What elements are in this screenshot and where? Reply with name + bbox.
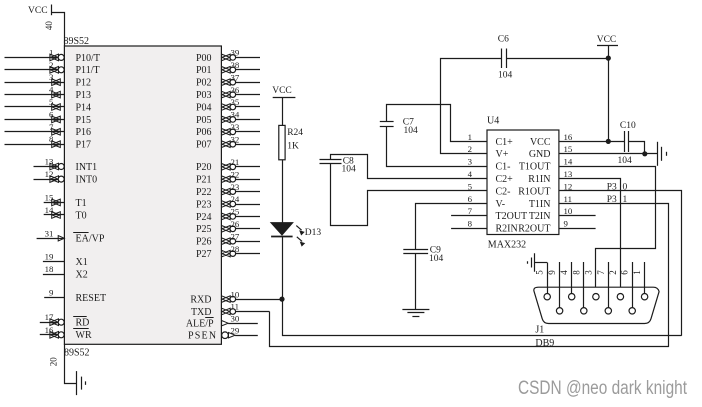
svg-text:P14: P14 [76, 102, 92, 113]
svg-text:INT0: INT0 [76, 175, 98, 186]
89S52 pin 21 (P20) wire, marker, number, label [196, 157, 260, 173]
wire TXD down and right along bottom (net P3.1) [270, 312, 669, 347]
svg-text:7: 7 [596, 270, 606, 275]
svg-text:38: 38 [231, 60, 240, 70]
svg-text:1: 1 [632, 270, 642, 275]
svg-text:P21: P21 [196, 175, 212, 186]
MAX232 pin 8 (R2IN) number + label [468, 219, 518, 235]
svg-text:6: 6 [620, 270, 630, 275]
wire MAX232 pin11 T1IN (net P3.1) to right-edge drop [559, 204, 669, 347]
wire R24 to LED D13 anode [282, 160, 284, 223]
svg-text:P03: P03 [196, 90, 212, 101]
89S52 pin 37 (P02) wire, marker, number, label [196, 72, 260, 88]
MAX232 pin 14 (T1OUT) number + label [519, 157, 573, 173]
svg-text:1: 1 [623, 195, 628, 205]
junction node VCC rail / pin16 wire [606, 139, 611, 144]
svg-text:6: 6 [468, 194, 473, 204]
svg-text:P11/T: P11/T [76, 65, 100, 76]
svg-text:18: 18 [45, 264, 54, 274]
capacitor C8 104 [320, 157, 357, 175]
svg-text:X1: X1 [76, 257, 88, 268]
svg-text:32: 32 [231, 134, 240, 144]
svg-text:P23: P23 [196, 199, 212, 210]
89S52 pin 20 wire to ground [65, 344, 77, 383]
svg-text:13: 13 [45, 157, 54, 167]
svg-text:P22: P22 [196, 187, 212, 198]
DB9 pin 5 hole + stub + number [535, 263, 551, 300]
svg-text:8: 8 [49, 134, 54, 144]
svg-text:89S52: 89S52 [64, 36, 90, 47]
capacitor C9 104 [403, 245, 443, 264]
svg-text:VCC: VCC [28, 6, 48, 16]
svg-text:C2-: C2- [496, 186, 511, 197]
svg-text:89S52: 89S52 [64, 348, 90, 359]
svg-text:4: 4 [559, 270, 569, 275]
net label P3.1 [607, 195, 628, 205]
MAX232 pin 5 (C2-) number + label [468, 181, 511, 197]
wire C6 to VCC rail [506, 58, 608, 60]
DB9 pin 7 hole + stub + number [596, 262, 612, 314]
svg-text:8: 8 [468, 219, 473, 229]
svg-text:27: 27 [231, 231, 240, 241]
DB9 pin 8 hole + stub + number [571, 262, 587, 314]
svg-text:T1OUT: T1OUT [519, 162, 551, 173]
svg-text:P15: P15 [76, 115, 92, 126]
svg-text:11: 11 [564, 194, 572, 204]
89S52 pin 23 (P22) wire, marker, number, label [196, 182, 260, 198]
svg-text:P27: P27 [196, 249, 212, 260]
MAX232 pin9 wire stub [559, 228, 596, 230]
svg-text:PSEN: PSEN [188, 331, 217, 342]
connector J1 DB9 body [534, 287, 659, 349]
89S52 pin 16 (WR) wire, marker, number, label [40, 325, 92, 341]
ground symbol below 89S52 (rotated right) [77, 371, 86, 395]
89S52 pin 26 (P25) wire, marker, number, label [196, 219, 260, 235]
89S52 pin 28 (P27) wire, marker, number, label [196, 244, 260, 260]
svg-text:RXD: RXD [190, 295, 211, 306]
svg-text:104: 104 [404, 126, 419, 136]
MAX232 pin 9 (R2OUT) number + label [518, 219, 568, 235]
svg-text:9: 9 [49, 288, 54, 298]
svg-text:26: 26 [231, 219, 240, 229]
svg-text:P25: P25 [196, 224, 212, 235]
svg-text:EA/VP: EA/VP [76, 234, 105, 245]
svg-text:C6: C6 [498, 35, 509, 45]
89S52 pin 15 (T1) wire, marker, number, label [44, 192, 87, 208]
svg-text:13: 13 [564, 169, 573, 179]
svg-text:P20: P20 [196, 162, 212, 173]
svg-text:19: 19 [45, 252, 54, 262]
svg-text:R1OUT: R1OUT [518, 186, 550, 197]
wire MAX232 pin15 GND row [559, 153, 657, 155]
capacitor C10 104 [618, 121, 636, 166]
svg-text:9: 9 [547, 270, 557, 275]
svg-text:4: 4 [468, 169, 473, 179]
MAX232 pin 12 (R1OUT) number + label [518, 181, 572, 197]
svg-text:U4: U4 [487, 116, 499, 127]
svg-text:P04: P04 [196, 102, 212, 113]
svg-text:ALE/P: ALE/P [186, 319, 214, 330]
89S52 pin 35 (P04) wire, marker, number, label [196, 97, 260, 113]
DB9 pin 2 hole + stub + number [608, 270, 624, 300]
svg-text:17: 17 [45, 312, 54, 322]
MAX232 pin 16 (VCC) number + label [530, 132, 573, 148]
VCC power symbol above R24 [272, 86, 295, 98]
wire C10 right lead down to GND row [628, 142, 644, 154]
89S52 pin 6 (P15) wire, marker, number, label [5, 109, 92, 125]
svg-text:R1IN: R1IN [528, 174, 550, 185]
svg-text:J1: J1 [535, 325, 544, 336]
89S52 pin 14 (T0) wire, marker, number, label [44, 205, 87, 221]
MAX232 pin 15 (GND) number + label [529, 144, 573, 160]
svg-text:36: 36 [231, 85, 240, 95]
ground symbol below C9 [402, 310, 429, 317]
svg-text:T1: T1 [76, 198, 87, 209]
svg-text:R2OUT: R2OUT [518, 224, 550, 235]
junction node RXD / LED / serial line [279, 297, 284, 302]
89S52 pin 25 (P24) wire, marker, number, label [196, 207, 260, 223]
wire junction down and right along bottom (net P3.0) [283, 299, 682, 335]
wire VCC to R24 [282, 98, 284, 126]
LED D13 [271, 223, 321, 246]
svg-text:T2OUT: T2OUT [496, 211, 528, 222]
wire C7 bottom to MAX232 pin3 C1- [387, 127, 488, 167]
svg-text:TXD: TXD [191, 307, 212, 318]
svg-text:X2: X2 [76, 270, 88, 281]
89S52 pin 19 (X1) wire, marker, number, label [43, 252, 88, 268]
svg-text:35: 35 [231, 97, 240, 107]
89S52 pin 30 (ALE/P) wire, marker, number, label [186, 313, 258, 329]
svg-text:23: 23 [231, 182, 240, 192]
svg-text:P06: P06 [196, 127, 212, 138]
svg-text:15: 15 [45, 192, 54, 202]
svg-text:P17: P17 [76, 140, 92, 151]
VCC power symbol (right, bar style) [597, 35, 618, 46]
wire C9 to ground [415, 253, 417, 309]
89S52 pin 38 (P01) wire, marker, number, label [196, 60, 260, 76]
wire VCC rail down to MAX232 pin16 [608, 46, 610, 142]
svg-text:T1IN: T1IN [529, 199, 551, 210]
svg-text:1: 1 [468, 132, 472, 142]
svg-text:RESET: RESET [76, 293, 107, 304]
svg-text:P3: P3 [607, 182, 617, 192]
svg-text:VCC: VCC [530, 137, 551, 148]
svg-text:3: 3 [468, 157, 473, 167]
svg-text:P01: P01 [196, 65, 212, 76]
MAX232 pin 1 (C1+) number + label [468, 132, 514, 148]
svg-text:R2IN: R2IN [496, 224, 518, 235]
svg-text:P24: P24 [196, 212, 212, 223]
svg-text:GND: GND [529, 149, 551, 160]
svg-text:15: 15 [564, 144, 573, 154]
svg-text:104: 104 [342, 165, 357, 175]
svg-text:28: 28 [231, 244, 240, 254]
svg-text:7: 7 [468, 206, 473, 216]
89S52 pin 5 (P14) wire, marker, number, label [5, 97, 92, 113]
MAX232 pin 13 (R1IN) number + label [528, 169, 573, 185]
svg-text:24: 24 [231, 194, 240, 204]
wire DB9 pin5 to ground lead [535, 262, 547, 264]
svg-text:21: 21 [231, 157, 240, 167]
MAX232 pin 4 (C2+) number + label [468, 169, 514, 185]
svg-text:39: 39 [231, 48, 240, 58]
svg-text:5: 5 [535, 270, 545, 275]
89S52 pin 1 (P10/T) wire, marker, number, label [5, 47, 100, 63]
svg-text:R24: R24 [287, 128, 303, 138]
svg-text:0: 0 [623, 182, 628, 192]
89S52 pin 27 (P26) wire, marker, number, label [196, 231, 260, 247]
svg-text:P00: P00 [196, 53, 212, 64]
89S52 pin 18 (X2) wire, marker, number, label [43, 264, 88, 280]
svg-text:104: 104 [618, 156, 633, 166]
capacitor C7 104 [380, 118, 418, 137]
IC U? 89S52 microcontroller body [64, 36, 222, 359]
VCC power symbol (top-left, bar style) [28, 5, 52, 16]
svg-text:C10: C10 [620, 121, 636, 131]
MAX232 pin 6 (V-) number + label [468, 194, 506, 210]
89S52 pin 11 (TXD) wire, marker, number, label [191, 302, 270, 318]
svg-text:MAX232: MAX232 [488, 239, 526, 250]
svg-text:C1+: C1+ [496, 137, 514, 148]
89S52 pin 34 (P05) wire, marker, number, label [196, 110, 260, 126]
89S52 pin 32 (P07) wire, marker, number, label [196, 134, 260, 150]
svg-text:VCC: VCC [597, 35, 617, 45]
svg-text:5: 5 [49, 97, 54, 107]
svg-text:104: 104 [498, 71, 513, 81]
svg-text:P3: P3 [607, 195, 617, 205]
svg-text:9: 9 [564, 219, 569, 229]
ground symbol right of MAX232 (rotated) [658, 142, 667, 166]
ground symbol left of DB9 (rotated) [528, 253, 535, 272]
89S52 pin 2 (P11/T) wire, marker, number, label [5, 60, 100, 76]
svg-text:37: 37 [231, 72, 240, 82]
svg-text:3: 3 [49, 72, 54, 82]
svg-text:2: 2 [468, 144, 472, 154]
wire MAX232 pin13 R1IN to DB9 pin2 [559, 179, 621, 294]
svg-text:C1-: C1- [496, 162, 511, 173]
svg-text:P07: P07 [196, 140, 212, 151]
MAX232 pin8 wire stub [451, 228, 487, 230]
svg-text:2: 2 [608, 270, 618, 275]
svg-text:V-: V- [496, 199, 506, 210]
DB9 pin 4 hole + stub + number [559, 262, 575, 300]
89S52 pin 22 (P21) wire, marker, number, label [196, 169, 260, 185]
svg-text:40: 40 [44, 21, 54, 31]
wire MAX232 pin12 R1OUT (net P3.0) to right-edge drop [559, 191, 682, 336]
svg-text:11: 11 [231, 302, 239, 312]
svg-text:104: 104 [429, 254, 444, 264]
svg-text:1: 1 [49, 47, 53, 57]
89S52 pin 3 (P12) wire, marker, number, label [5, 72, 92, 88]
svg-text:CSDN @neo dark knight: CSDN @neo dark knight [518, 378, 688, 399]
svg-text:V+: V+ [496, 149, 509, 160]
svg-text:10: 10 [564, 206, 573, 216]
MAX232 pin 3 (C1-) number + label [468, 157, 511, 173]
svg-text:C2+: C2+ [496, 174, 514, 185]
svg-text:7: 7 [49, 122, 54, 132]
svg-text:12: 12 [45, 169, 54, 179]
svg-text:16: 16 [45, 325, 54, 335]
resistor R24 1K [279, 125, 303, 159]
wire MAX232 pin2 V+ up and right to C6 [441, 59, 502, 154]
wire MAX232 pin16 VCC row [559, 141, 625, 143]
DB9 pin 3 hole + stub + number [583, 270, 599, 300]
svg-text:16: 16 [564, 132, 573, 142]
wire VCC to 89S52 pin 40 [52, 13, 65, 47]
op-amp U4 MAX232 body [487, 116, 559, 251]
junction node C10 / GND row [642, 151, 647, 156]
MAX232 pin10 wire stub [559, 215, 596, 217]
89S52 pin 31 (EA/VP) wire, marker, number, label [37, 228, 105, 244]
svg-text:P02: P02 [196, 78, 212, 89]
MAX232 pin7 wire stub [451, 215, 487, 217]
svg-text:VCC: VCC [272, 86, 292, 96]
svg-text:3: 3 [583, 270, 593, 275]
MAX232 pin 2 (V+) number + label [468, 144, 509, 160]
svg-text:T2IN: T2IN [529, 211, 551, 222]
svg-text:6: 6 [49, 109, 54, 119]
wire C8 to MAX232 pin5 C2- [331, 163, 488, 225]
svg-text:T0: T0 [76, 210, 87, 221]
89S52 pin 9 (RESET) wire, marker, number, label [44, 288, 106, 304]
89S52 pin 33 (P06) wire, marker, number, label [196, 122, 260, 138]
wire MAX232 pin1 C1+ to C7 top [387, 105, 488, 142]
svg-text:D13: D13 [305, 228, 322, 238]
89S52 pin 24 (P23) wire, marker, number, label [196, 194, 260, 210]
svg-text:P16: P16 [76, 127, 92, 138]
svg-text:P05: P05 [196, 115, 212, 126]
svg-text:P12: P12 [76, 78, 92, 89]
DB9 pin 1 hole + stub + number [632, 262, 648, 300]
svg-text:20: 20 [49, 357, 59, 367]
svg-text:22: 22 [231, 169, 240, 179]
svg-text:8: 8 [571, 270, 581, 275]
svg-text:30: 30 [231, 313, 240, 323]
svg-text:33: 33 [231, 122, 240, 132]
89S52 pin 4 (P13) wire, marker, number, label [5, 85, 92, 101]
wire MAX232 pin4 C2+ loop to C8 [331, 155, 488, 179]
junction node C6/VCC [606, 56, 611, 61]
wire LED cathode down to RXD junction [282, 236, 284, 299]
svg-text:5: 5 [468, 181, 473, 191]
89S52 pin 7 (P16) wire, marker, number, label [5, 122, 92, 138]
svg-text:14: 14 [45, 205, 54, 215]
89S52 pin 13 (INT1) wire, marker, number, label [34, 157, 98, 173]
svg-text:2: 2 [49, 60, 53, 70]
svg-text:31: 31 [45, 228, 54, 238]
DB9 pin 9 hole + stub + number [547, 262, 563, 314]
svg-text:WR: WR [76, 330, 92, 341]
svg-text:25: 25 [231, 207, 240, 217]
svg-text:P26: P26 [196, 237, 212, 248]
svg-text:4: 4 [49, 85, 54, 95]
svg-text:1K: 1K [287, 142, 299, 152]
DB9 pin 6 hole + stub + number [620, 262, 636, 314]
89S52 pin 39 (P00) wire, marker, number, label [196, 48, 260, 64]
svg-text:INT1: INT1 [76, 162, 98, 173]
89S52 pin 36 (P03) wire, marker, number, label [196, 85, 260, 101]
89S52 pin 29 (PSEN) wire, marker, number, label [188, 325, 258, 341]
svg-text:34: 34 [231, 110, 240, 120]
89S52 pin 12 (INT0) wire, marker, number, label [34, 169, 98, 185]
MAX232 pin 11 (T1IN) number + label [529, 194, 572, 210]
net label P3.0 [607, 182, 628, 192]
capacitor C6 104 [498, 35, 513, 81]
89S52 pin 17 (RD) wire, marker, number, label [40, 312, 90, 328]
wire MAX232 pin14 T1OUT to DB9 pin3 [559, 167, 656, 294]
89S52 pin 8 (P17) wire, marker, number, label [5, 134, 92, 150]
svg-text:14: 14 [564, 157, 573, 167]
svg-text:29: 29 [231, 325, 240, 335]
MAX232 pin 10 (T2IN) number + label [529, 206, 573, 222]
svg-text:RD: RD [76, 318, 90, 329]
svg-text:P10/T: P10/T [76, 53, 100, 64]
svg-text:10: 10 [231, 289, 240, 299]
svg-text:P13: P13 [76, 90, 92, 101]
MAX232 pin 7 (T2OUT) number + label [468, 206, 528, 222]
svg-text:DB9: DB9 [535, 338, 554, 349]
89S52 pin 10 (RXD) wire, marker, number, label [190, 289, 282, 305]
wire MAX232 pin6 V- to C9 [416, 204, 488, 250]
